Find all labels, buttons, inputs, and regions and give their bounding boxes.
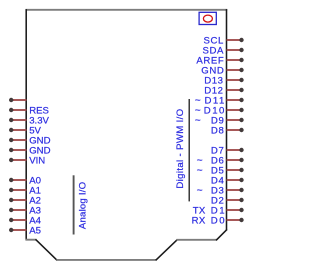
board outline bottom-left ledge: [26, 239, 37, 241]
board outline bottom-left diagonal: [36, 239, 58, 260]
power-jack icon square: [199, 12, 216, 24]
pin AREF: [227, 58, 244, 62]
pin A3: [9, 208, 27, 212]
pin GND1: [9, 138, 27, 142]
svg-text:~: ~: [197, 166, 203, 177]
pin D9: [227, 118, 244, 122]
svg-text:D0: D0: [211, 215, 226, 226]
svg-text:Digital - PWM I/O: Digital - PWM I/O: [175, 109, 186, 189]
pin A0: [9, 178, 27, 182]
pin 3.3V: [9, 118, 27, 122]
board outline bottom-right ledge: [177, 239, 217, 241]
pin A2: [9, 198, 27, 202]
pin D12: [227, 88, 244, 92]
pin D10: [227, 108, 244, 112]
board outline top edge: [26, 9, 228, 11]
svg-text:A5: A5: [29, 225, 41, 236]
svg-text:~: ~: [197, 186, 203, 197]
pin D11: [227, 98, 244, 102]
pin D2: [227, 198, 244, 202]
svg-text:D8: D8: [211, 125, 224, 136]
pin RES: [9, 108, 27, 112]
svg-text:RX: RX: [192, 215, 206, 226]
board outline right edge: [226, 9, 228, 230]
digital group bracket line: [188, 99, 190, 201]
pin SDA: [227, 48, 244, 52]
pin SCL: [227, 38, 244, 42]
board outline bottom edge: [56, 259, 156, 261]
board outline bottom-right diagonal: [156, 239, 178, 260]
pin D0: [227, 218, 244, 222]
pin D4: [227, 178, 244, 182]
pin D6: [227, 158, 244, 162]
svg-text:VIN: VIN: [29, 155, 45, 166]
pin A5: [9, 228, 27, 232]
pin D1: [227, 208, 244, 212]
pin GND3: [227, 68, 244, 72]
pin A1: [9, 188, 27, 192]
board outline left edge: [25, 9, 27, 240]
pin VIN: [9, 158, 27, 162]
pin D3: [227, 188, 244, 192]
pin GND2: [9, 148, 27, 152]
pin D7: [227, 148, 244, 152]
pin 5V: [9, 128, 27, 132]
power-jack icon circle: [203, 15, 212, 22]
pin IOREF (unlabeled): [9, 98, 27, 102]
svg-text:~: ~: [195, 116, 201, 127]
pin D8: [227, 128, 244, 132]
pin D13: [227, 78, 244, 82]
pin D5: [227, 168, 244, 172]
svg-text:Analog I/O: Analog I/O: [78, 182, 89, 229]
analog group bracket line: [73, 175, 75, 234]
pin A4: [9, 218, 27, 222]
board outline notch diagonal: [216, 229, 227, 240]
